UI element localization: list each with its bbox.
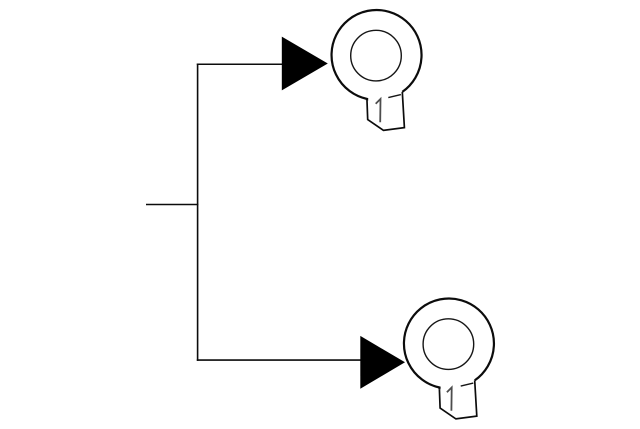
mounting tab outline (bottom part) [439, 380, 476, 419]
inner hole (top part) [351, 30, 402, 81]
arrow (top callout) [282, 37, 328, 91]
part grommet (bottom) [404, 299, 494, 419]
mounting tab outline (top part) [367, 92, 404, 130]
outer ring (bottom part) [404, 299, 494, 390]
tab back edge line (bottom part) [461, 383, 474, 386]
tab back edge line (top part) [388, 95, 401, 98]
inner hole (bottom part) [423, 319, 474, 370]
label 1 (top part) [376, 99, 381, 122]
label 1 (bottom part) [447, 387, 452, 410]
outer ring (top part) [332, 10, 422, 101]
wire: left stub lead [146, 204, 198, 206]
wire: vertical trunk [197, 63, 199, 360]
wire: bottom branch horizontal [197, 359, 361, 361]
part grommet (top) [332, 10, 422, 130]
arrow (bottom callout) [360, 336, 405, 389]
wire: top branch horizontal [197, 63, 282, 65]
